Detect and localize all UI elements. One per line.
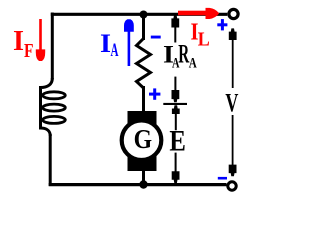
terminal bottom right [228,182,236,190]
arrow IA current up [124,19,134,66]
wire armature top stub [142,13,145,40]
arrow IF current down [36,19,45,61]
label IARA voltage drop [163,40,197,72]
resistor RA zigzag [137,39,151,89]
wire left upper vertical [51,13,54,80]
label IF [13,25,34,62]
dimension arrow IARA lower [172,77,180,103]
dimension arrow E upper [172,105,180,130]
wire resistor to generator [142,86,145,112]
svg-text:G: G [134,124,153,154]
wire top horizontal [51,13,228,16]
terminal top right [229,9,238,18]
dimension arrow IARA upper [171,15,179,42]
svg-text:A: A [189,56,197,72]
label IA [100,29,119,61]
svg-text:L: L [198,29,210,51]
dimension arrow V upper [229,28,237,88]
svg-text:R: R [178,40,189,69]
svg-text:I: I [13,25,24,57]
polarity minus at bottom terminal [218,177,227,180]
dimension arrow E lower [172,153,180,183]
svg-text:F: F [24,40,34,62]
label IL [191,19,210,51]
node junction dot bottom [139,180,147,188]
dimension tick line between IARA and E [163,103,187,105]
svg-text:E: E [169,126,186,158]
svg-text:I: I [100,29,111,58]
polarity plus at resistor bottom [149,88,160,99]
wire generator to bottom [142,169,145,186]
wire left lower vertical [49,134,52,186]
inductor L1 field winding [41,78,66,136]
generator G armature block [128,111,157,171]
node junction dot top [140,11,148,19]
wire bottom horizontal [49,183,227,186]
svg-text:V: V [225,89,238,118]
generator G circle [122,120,162,160]
polarity minus at resistor top [151,36,161,39]
arrow IL current right [178,8,219,19]
svg-text:A: A [111,40,119,61]
polarity plus at top terminal [217,19,227,30]
dimension arrow V lower [229,115,237,176]
